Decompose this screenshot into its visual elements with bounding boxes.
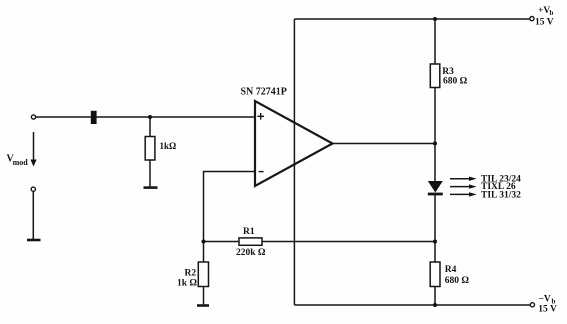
op-amp − pin	[259, 171, 264, 173]
wire: junction to R4	[434, 242, 436, 263]
wire: R3 to output node	[434, 88, 436, 144]
Vmod arrow	[30, 132, 36, 167]
node: −Vb rail / R4	[433, 303, 437, 307]
wire: R4 to −Vb rail	[434, 287, 436, 306]
wire: output node to LED	[434, 144, 436, 182]
svg-text:b: b	[550, 9, 554, 17]
svg-text:R1: R1	[243, 227, 255, 237]
svg-text:1kΩ: 1kΩ	[160, 141, 177, 151]
node: LED / R1 / R4 junction	[433, 240, 437, 244]
resistor R1 220kΩ	[239, 238, 262, 245]
svg-text:TIL 31/32: TIL 31/32	[481, 191, 521, 201]
op-amp U1 SN 72741P	[255, 101, 333, 186]
wire: LED to lower junction	[434, 195, 436, 242]
LED light arrow 3	[450, 192, 477, 196]
svg-text:R2: R2	[185, 269, 197, 279]
terminal +Vb	[530, 17, 534, 21]
-Vb rail	[294, 304, 530, 306]
wire: R2 to ground	[203, 287, 205, 305]
wire: input to op-amp +	[36, 116, 255, 118]
wire: bottom terminal to ground	[32, 191, 34, 239]
wire: op-amp − input	[204, 172, 256, 242]
input terminal (bottom)	[31, 187, 35, 191]
ground (below bottom terminal)	[27, 239, 41, 242]
svg-text:SN 72741P: SN 72741P	[241, 87, 287, 98]
svg-text:220k Ω: 220k Ω	[236, 248, 266, 258]
svg-text:15 V: 15 V	[538, 305, 557, 315]
resistor R3 680Ω	[430, 64, 440, 88]
LED cathode bar	[428, 193, 443, 196]
resistor 1 kΩ (input shunt)	[145, 137, 155, 161]
ground (below R2)	[197, 304, 209, 307]
node: output	[433, 142, 437, 146]
wire: junction to R1	[204, 241, 240, 243]
+Vb rail	[294, 18, 529, 20]
wire: junction down to 1k resistor	[149, 117, 151, 137]
LED diode (anode triangle)	[428, 181, 443, 193]
resistor R2 1kΩ	[198, 262, 208, 287]
capacitor (coupling)	[91, 111, 97, 124]
resistor R4 680Ω	[430, 262, 440, 287]
svg-text:−V: −V	[539, 295, 551, 305]
svg-text:1k Ω: 1k Ω	[177, 279, 197, 289]
vertical supply line	[293, 19, 295, 305]
LED light arrow 1	[450, 177, 477, 181]
wire: rail to R3	[434, 19, 436, 64]
wire: op-amp output	[333, 143, 436, 145]
wire: junction down to R2	[203, 242, 205, 263]
node: +Vb rail / R3	[433, 17, 437, 21]
svg-text:15 V: 15 V	[535, 18, 554, 28]
terminal −Vb	[530, 303, 534, 307]
wire: R1 to LED node	[262, 241, 435, 243]
node: junction input / 1k resistor	[148, 115, 152, 119]
ground (below 1k resistor)	[144, 186, 158, 189]
svg-text:mod: mod	[13, 158, 29, 167]
wire: 1k resistor to ground	[149, 160, 151, 187]
LED light arrow 2	[450, 184, 477, 188]
svg-text:680 Ω: 680 Ω	[443, 77, 468, 87]
svg-text:R4: R4	[445, 265, 457, 275]
svg-text:R3: R3	[442, 67, 454, 77]
input terminal (top)	[31, 115, 35, 119]
op-amp + pin	[257, 113, 264, 120]
svg-text:680 Ω: 680 Ω	[445, 276, 470, 286]
node: R1 / R2 junction	[202, 240, 206, 244]
